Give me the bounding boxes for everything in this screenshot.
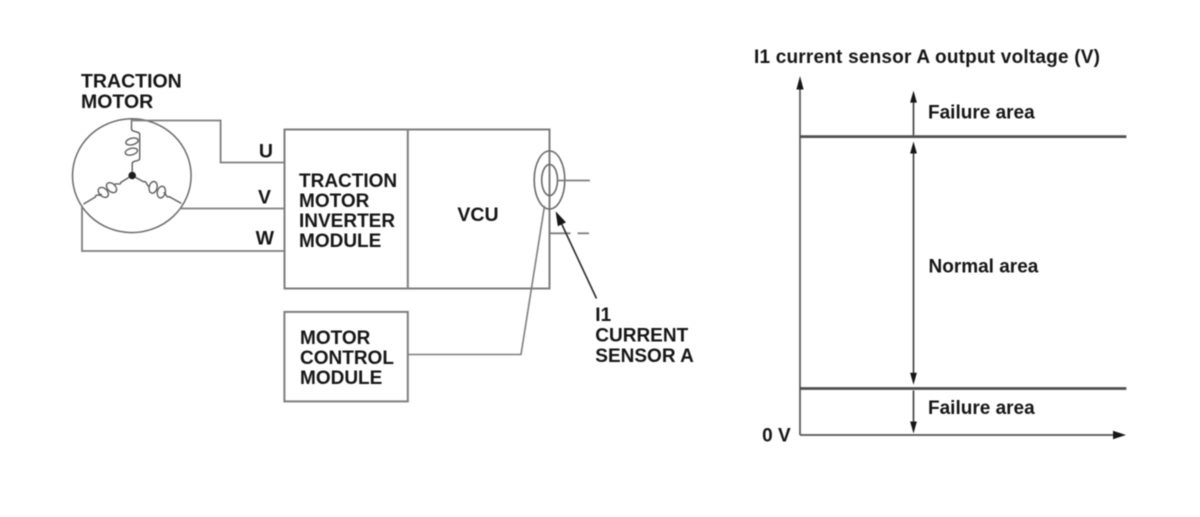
- label I1 CURRENT SENSOR A: [595, 305, 694, 367]
- current sensor A outer ring: [534, 151, 565, 209]
- pointer arrow to current sensor: [556, 211, 597, 298]
- svg-text:0 V: 0 V: [762, 426, 791, 447]
- current sensor A inner ring: [542, 164, 558, 195]
- sensor output lead (upper): [558, 180, 590, 182]
- wire from motor control module to current sensor: [408, 206, 545, 355]
- svg-text:MOTOR: MOTOR: [299, 191, 370, 212]
- svg-text:I1: I1: [595, 305, 611, 326]
- svg-text:U: U: [259, 141, 273, 163]
- label TRACTION MOTOR INVERTER MODULE: [299, 171, 397, 252]
- winding L3 (lower-left phase coil): [80, 172, 133, 210]
- wire U (motor top terminal to inverter): [131, 121, 285, 163]
- sensor lead (lower, broken): [550, 232, 590, 234]
- svg-text:I1 current sensor A output vol: I1 current sensor A output voltage (V): [754, 47, 1100, 68]
- divider between inverter module and VCU: [407, 130, 409, 289]
- svg-text:MOTOR: MOTOR: [81, 91, 153, 113]
- winding L2 (lower-right phase coil): [132, 171, 185, 209]
- svg-text:MOTOR: MOTOR: [300, 328, 371, 349]
- winding L1 (top phase coil): [124, 119, 139, 172]
- svg-text:VCU: VCU: [457, 204, 498, 226]
- upper failure threshold line: [800, 135, 1126, 138]
- motor star point (neutral node): [128, 172, 136, 180]
- svg-text:MODULE: MODULE: [299, 231, 381, 252]
- traction motor body (stator circle): [73, 119, 192, 233]
- normal area double arrow: [910, 142, 917, 385]
- motor control module box: [284, 312, 407, 402]
- svg-text:Normal area: Normal area: [929, 256, 1039, 277]
- graph Y axis: [796, 76, 803, 435]
- upper failure area arrow: [910, 91, 917, 136]
- svg-text:Failure area: Failure area: [928, 102, 1035, 123]
- svg-text:TRACTION: TRACTION: [81, 71, 182, 93]
- label MOTOR CONTROL MODULE: [300, 328, 394, 389]
- svg-text:MODULE: MODULE: [300, 368, 382, 389]
- lower failure area arrow: [910, 391, 917, 434]
- traction motor inverter module / VCU outline box: [285, 130, 550, 289]
- svg-text:CURRENT: CURRENT: [595, 326, 688, 347]
- graph X axis: [800, 431, 1126, 439]
- lower failure threshold line: [800, 387, 1126, 390]
- svg-text:CONTROL: CONTROL: [300, 348, 394, 369]
- svg-text:INVERTER: INVERTER: [299, 211, 395, 232]
- wire V (motor right terminal to inverter): [180, 208, 285, 210]
- svg-text:Failure area: Failure area: [928, 398, 1035, 419]
- svg-text:SENSOR A: SENSOR A: [595, 346, 694, 367]
- svg-text:W: W: [256, 228, 275, 250]
- label TRACTION MOTOR: [81, 71, 182, 114]
- svg-text:TRACTION: TRACTION: [299, 171, 397, 192]
- svg-text:V: V: [258, 187, 271, 209]
- wire W (motor left terminal to inverter): [82, 206, 285, 252]
